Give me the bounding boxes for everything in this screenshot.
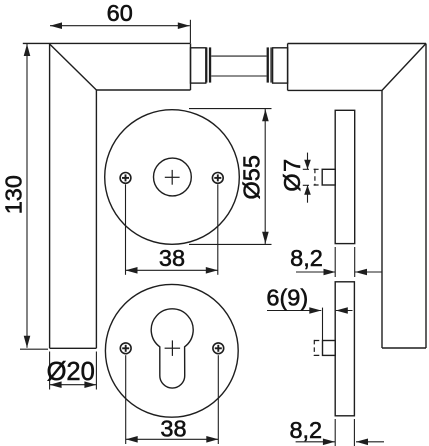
bottom spindle pin solid (323, 341, 336, 356)
dim 130 line (26, 44, 28, 348)
dim Ø7 ext ticks (303, 168, 309, 170)
arrow 60 left (50, 22, 62, 29)
bottom rosette side view rect (335, 282, 354, 416)
arrow Ø55 bottom (262, 232, 269, 244)
left neck collar (191, 48, 206, 83)
dim 8,2 bottom stems (296, 441, 335, 443)
dim 38 bottom ext lines (125, 355, 127, 444)
bottom rosette left screw (120, 343, 131, 354)
right neck flange (267, 47, 269, 82)
right handle grip bottom edge (382, 347, 426, 349)
svg-text:8,2: 8,2 (289, 417, 322, 443)
svg-text:38: 38 (160, 415, 186, 441)
left handle grip right edge (95, 90, 97, 348)
svg-text:6(9): 6(9) (266, 285, 308, 311)
bottom rosette right screw (213, 343, 224, 354)
dim 8,2 top stems (296, 271, 336, 273)
arrow 8,2 bottom-right (356, 439, 368, 446)
top rosette left screw (120, 173, 131, 184)
right handle arm bottom edge (288, 89, 382, 91)
left handle arm bottom edge (96, 89, 190, 91)
left neck flange (206, 47, 207, 82)
svg-text:Ø20: Ø20 (47, 358, 95, 386)
top spindle pin dashed (9mm option) (314, 169, 323, 186)
dim 60 line (50, 25, 190, 27)
keyhole euro profile (151, 309, 193, 388)
dim Ø55 line (264, 109, 266, 245)
top rosette center cross (165, 170, 180, 185)
top rosette side view rect (335, 110, 355, 243)
dim 8,2 top ext lines (334, 247, 336, 277)
bottom spindle pin dashed (314, 340, 322, 356)
bottom rosette center cross (165, 340, 181, 356)
dim Ø20 line (50, 384, 97, 386)
dim 6(9) ext line (322, 308, 324, 340)
right handle miter diagonal (382, 44, 426, 91)
arrow 38 top-left (126, 267, 138, 274)
top rosette circle (105, 110, 240, 245)
arrow 60 right (178, 22, 190, 29)
right handle grip left edge (381, 90, 383, 348)
left handle grip bottom edge (50, 347, 97, 349)
dim 60 right ext line (189, 20, 191, 43)
arrow Ø7 bottom (304, 185, 311, 195)
arrowheads (24, 22, 368, 445)
svg-text:130: 130 (1, 175, 27, 214)
dim 38 top line (126, 269, 218, 271)
arrow 38 bottom-right (206, 436, 218, 443)
left handle top edge with extension (23, 42, 191, 44)
dim 130 bottom ext line (20, 348, 48, 350)
svg-text:8,2: 8,2 (290, 245, 323, 271)
arrow 130 bottom (24, 336, 31, 348)
left handle body right edge (190, 43, 192, 90)
arrow 8,2 bottom-left (323, 439, 335, 446)
top rosette inner circle (154, 158, 192, 196)
arrow 38 top-right (206, 267, 218, 274)
svg-text:38: 38 (159, 245, 185, 271)
top spindle pin solid (322, 169, 335, 185)
dim Ø7 arrows stems (307, 153, 309, 170)
bottom rosette circle (105, 284, 238, 417)
arrow Ø55 top (262, 109, 269, 121)
arrow 38 bottom-left (126, 436, 138, 443)
svg-text:Ø55: Ø55 (239, 155, 265, 199)
dim 6(9) right stem (336, 310, 353, 312)
dim 6(9) stem (267, 310, 321, 312)
arrow 8,2 top-left (324, 269, 336, 276)
arrow Ø20 right (84, 381, 96, 388)
dim 38 top ext lines (125, 184, 127, 274)
top rosette right screw (212, 173, 223, 184)
dim 38 bottom line (126, 438, 219, 440)
arrow 130 top (24, 44, 31, 56)
svg-text:60: 60 (107, 0, 133, 26)
arrow 8,2 top-right (355, 269, 367, 276)
arrow 6(9) left (309, 307, 321, 314)
dim 8,2 bottom ext lines (334, 419, 336, 446)
right handle grip right edge (425, 44, 427, 349)
left handle miter diagonal (50, 44, 97, 90)
right handle body left edge (287, 44, 289, 91)
svg-text:Ø7: Ø7 (279, 157, 305, 191)
arrow 6(9) right (336, 307, 348, 314)
dim Ø55 ext lines (189, 108, 272, 110)
right neck collar (273, 48, 288, 83)
right handle top edge (288, 43, 426, 45)
arrow Ø20 left (50, 381, 62, 388)
arrow Ø7 top (304, 160, 311, 170)
spindle (211, 55, 266, 57)
left handle grip left edge (49, 43, 51, 348)
dim Ø20 ext lines (49, 352, 51, 390)
